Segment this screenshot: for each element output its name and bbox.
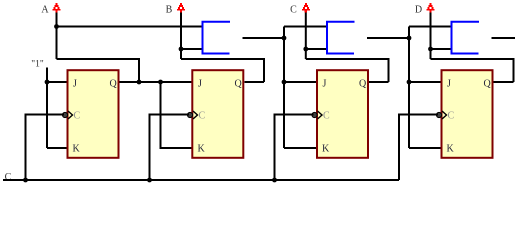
wire A run to Q1: [57, 59, 140, 82]
wire gate2out to gate3 input1: [409, 26, 452, 28]
svg-text:Q: Q: [359, 79, 367, 90]
wire K3 input: [284, 147, 316, 149]
wire A to gate1 input1: [57, 26, 203, 28]
wire C run to Q3: [306, 59, 389, 82]
wire D to gate3 input2: [431, 48, 452, 50]
wire J3 input: [284, 81, 316, 83]
svg-text:C: C: [323, 111, 330, 122]
wire probe A vertical: [56, 13, 58, 60]
wire Q3 output: [369, 81, 389, 83]
and-gate U6 (blue): [327, 22, 355, 54]
and-gate U5 (blue): [203, 22, 231, 54]
wire "1" rail vertical: [46, 68, 48, 149]
wire probe B vertical: [180, 13, 182, 60]
junction dot Q1/K2: [158, 80, 163, 85]
svg-text:K: K: [322, 144, 330, 155]
svg-text:J: J: [198, 79, 202, 90]
wire Q1 to J2: [120, 81, 192, 83]
wire K4 input: [409, 147, 441, 149]
junction dot gate2 output: [407, 36, 412, 41]
wire B to gate1 input2: [181, 48, 203, 50]
probe D: [427, 3, 435, 13]
flip-flop U1: [62, 70, 118, 158]
wire clock riser 4: [399, 115, 438, 181]
junction dot gate1 output: [282, 36, 287, 41]
wire clock rail: [3, 179, 399, 181]
svg-text:C: C: [5, 172, 12, 183]
svg-text:C: C: [290, 5, 297, 16]
junction dot D: [428, 47, 433, 52]
svg-text:Q: Q: [110, 79, 118, 90]
wire distribution vertical 1: [283, 27, 285, 149]
wire clock riser 1: [26, 115, 65, 181]
svg-text:C: C: [199, 111, 206, 122]
wire clock riser 3: [275, 115, 314, 181]
wire probe C vertical: [305, 13, 307, 60]
wire gate1out to gate2 input1: [284, 26, 327, 28]
wire probe D vertical: [430, 13, 432, 60]
junction dot clock 1: [23, 178, 28, 183]
svg-text:Q: Q: [484, 79, 492, 90]
wire gate2 output: [367, 37, 409, 39]
wire J4 input: [409, 81, 441, 83]
junction dot "1"/J1: [45, 80, 50, 85]
junction dot J3: [282, 80, 287, 85]
junction dot clock 2: [147, 178, 152, 183]
svg-text:K: K: [198, 144, 206, 155]
svg-text:C: C: [448, 111, 455, 122]
node A junction dot: [54, 24, 59, 29]
svg-text:K: K: [447, 144, 455, 155]
probe B: [177, 3, 185, 13]
wire C to gate2 input2: [306, 48, 327, 50]
svg-text:J: J: [447, 79, 451, 90]
wire Q4 output: [494, 81, 514, 83]
svg-text:C: C: [74, 111, 81, 122]
and-gate U7 (blue): [452, 22, 480, 54]
junction dot clock 3: [272, 178, 277, 183]
wire K1 input: [47, 147, 67, 149]
svg-text:B: B: [166, 5, 173, 16]
wire B run to Q2: [181, 59, 264, 82]
svg-text:K: K: [73, 144, 81, 155]
wire D run to Q4: [431, 59, 514, 82]
svg-text:"1": "1": [31, 60, 44, 70]
junction dot C: [303, 47, 308, 52]
probe C: [302, 3, 310, 13]
svg-text:Q: Q: [235, 79, 243, 90]
flip-flop U4: [436, 70, 492, 158]
flip-flop U3: [312, 70, 368, 158]
svg-text:A: A: [41, 5, 49, 16]
wire J1 input: [47, 81, 67, 83]
wire Q2 output: [245, 81, 265, 83]
wire gate1 output: [243, 37, 285, 39]
wire K2 riser: [161, 82, 192, 148]
junction dot B: [179, 47, 184, 52]
junction dot Q1/A: [137, 80, 142, 85]
svg-text:J: J: [323, 79, 327, 90]
svg-text:J: J: [73, 79, 77, 90]
wire clock riser 2: [150, 115, 190, 181]
flip-flop U2: [187, 70, 243, 158]
probe A: [53, 3, 61, 13]
junction dot J4: [407, 80, 412, 85]
wire distribution vertical 2: [408, 27, 410, 149]
svg-text:D: D: [415, 5, 422, 16]
wire gate3 output (dangling): [492, 37, 516, 39]
